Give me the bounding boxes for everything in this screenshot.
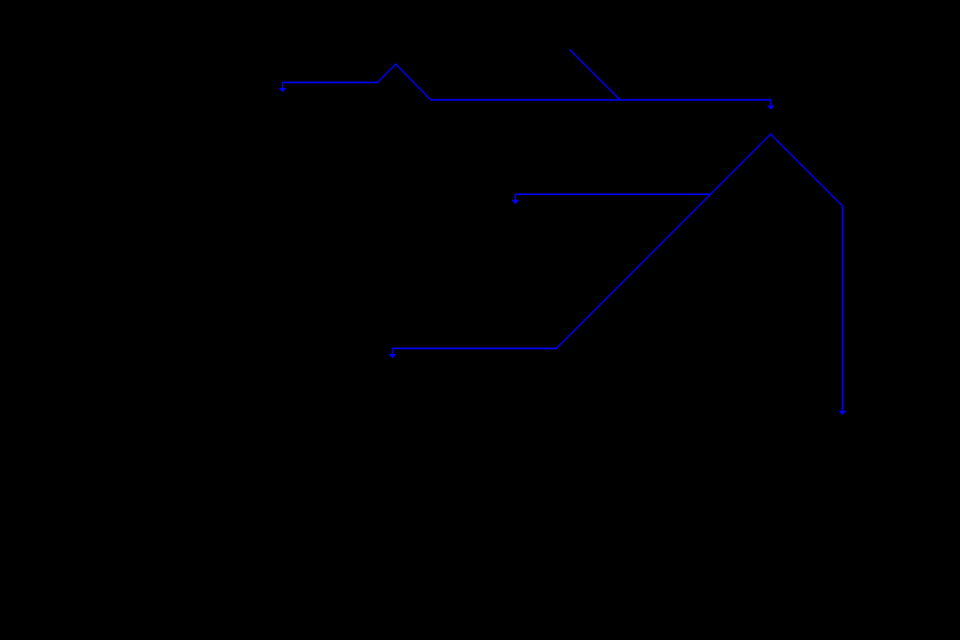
wire N3 horizontal segment	[515, 193, 710, 195]
wire net N4 run: left horizontal, apex, right vertical drop	[392, 134, 842, 411]
net arrow terminal A5 at bottom end of N4	[839, 411, 847, 415]
wire N4 right vertical segment	[842, 206, 844, 411]
net arrow terminal A4 at left end of N4	[389, 348, 397, 358]
net arrow terminal A1 at left end of N1	[279, 82, 287, 92]
wire net N3 horizontal ending on N4 diagonal at (710.5,194)	[515, 193, 710, 195]
wire net N1 run: left horizontal, peak bump, long horizontal	[283, 64, 771, 100]
wire N1 long horizontal segment	[431, 99, 771, 101]
overdraw: axis-aligned wire segments slightly bolder	[283, 82, 843, 411]
wire N1 left horizontal segment	[283, 81, 378, 83]
net arrow terminal A2 at right end of N1	[767, 100, 775, 110]
glow under-layer for all wires	[283, 49, 843, 411]
wire net N2 branch diagonal joining N1 at (620,100)	[569, 49, 620, 100]
wire N4 left horizontal segment	[392, 347, 556, 349]
net arrow terminal A3 at left end of N3	[512, 194, 520, 204]
